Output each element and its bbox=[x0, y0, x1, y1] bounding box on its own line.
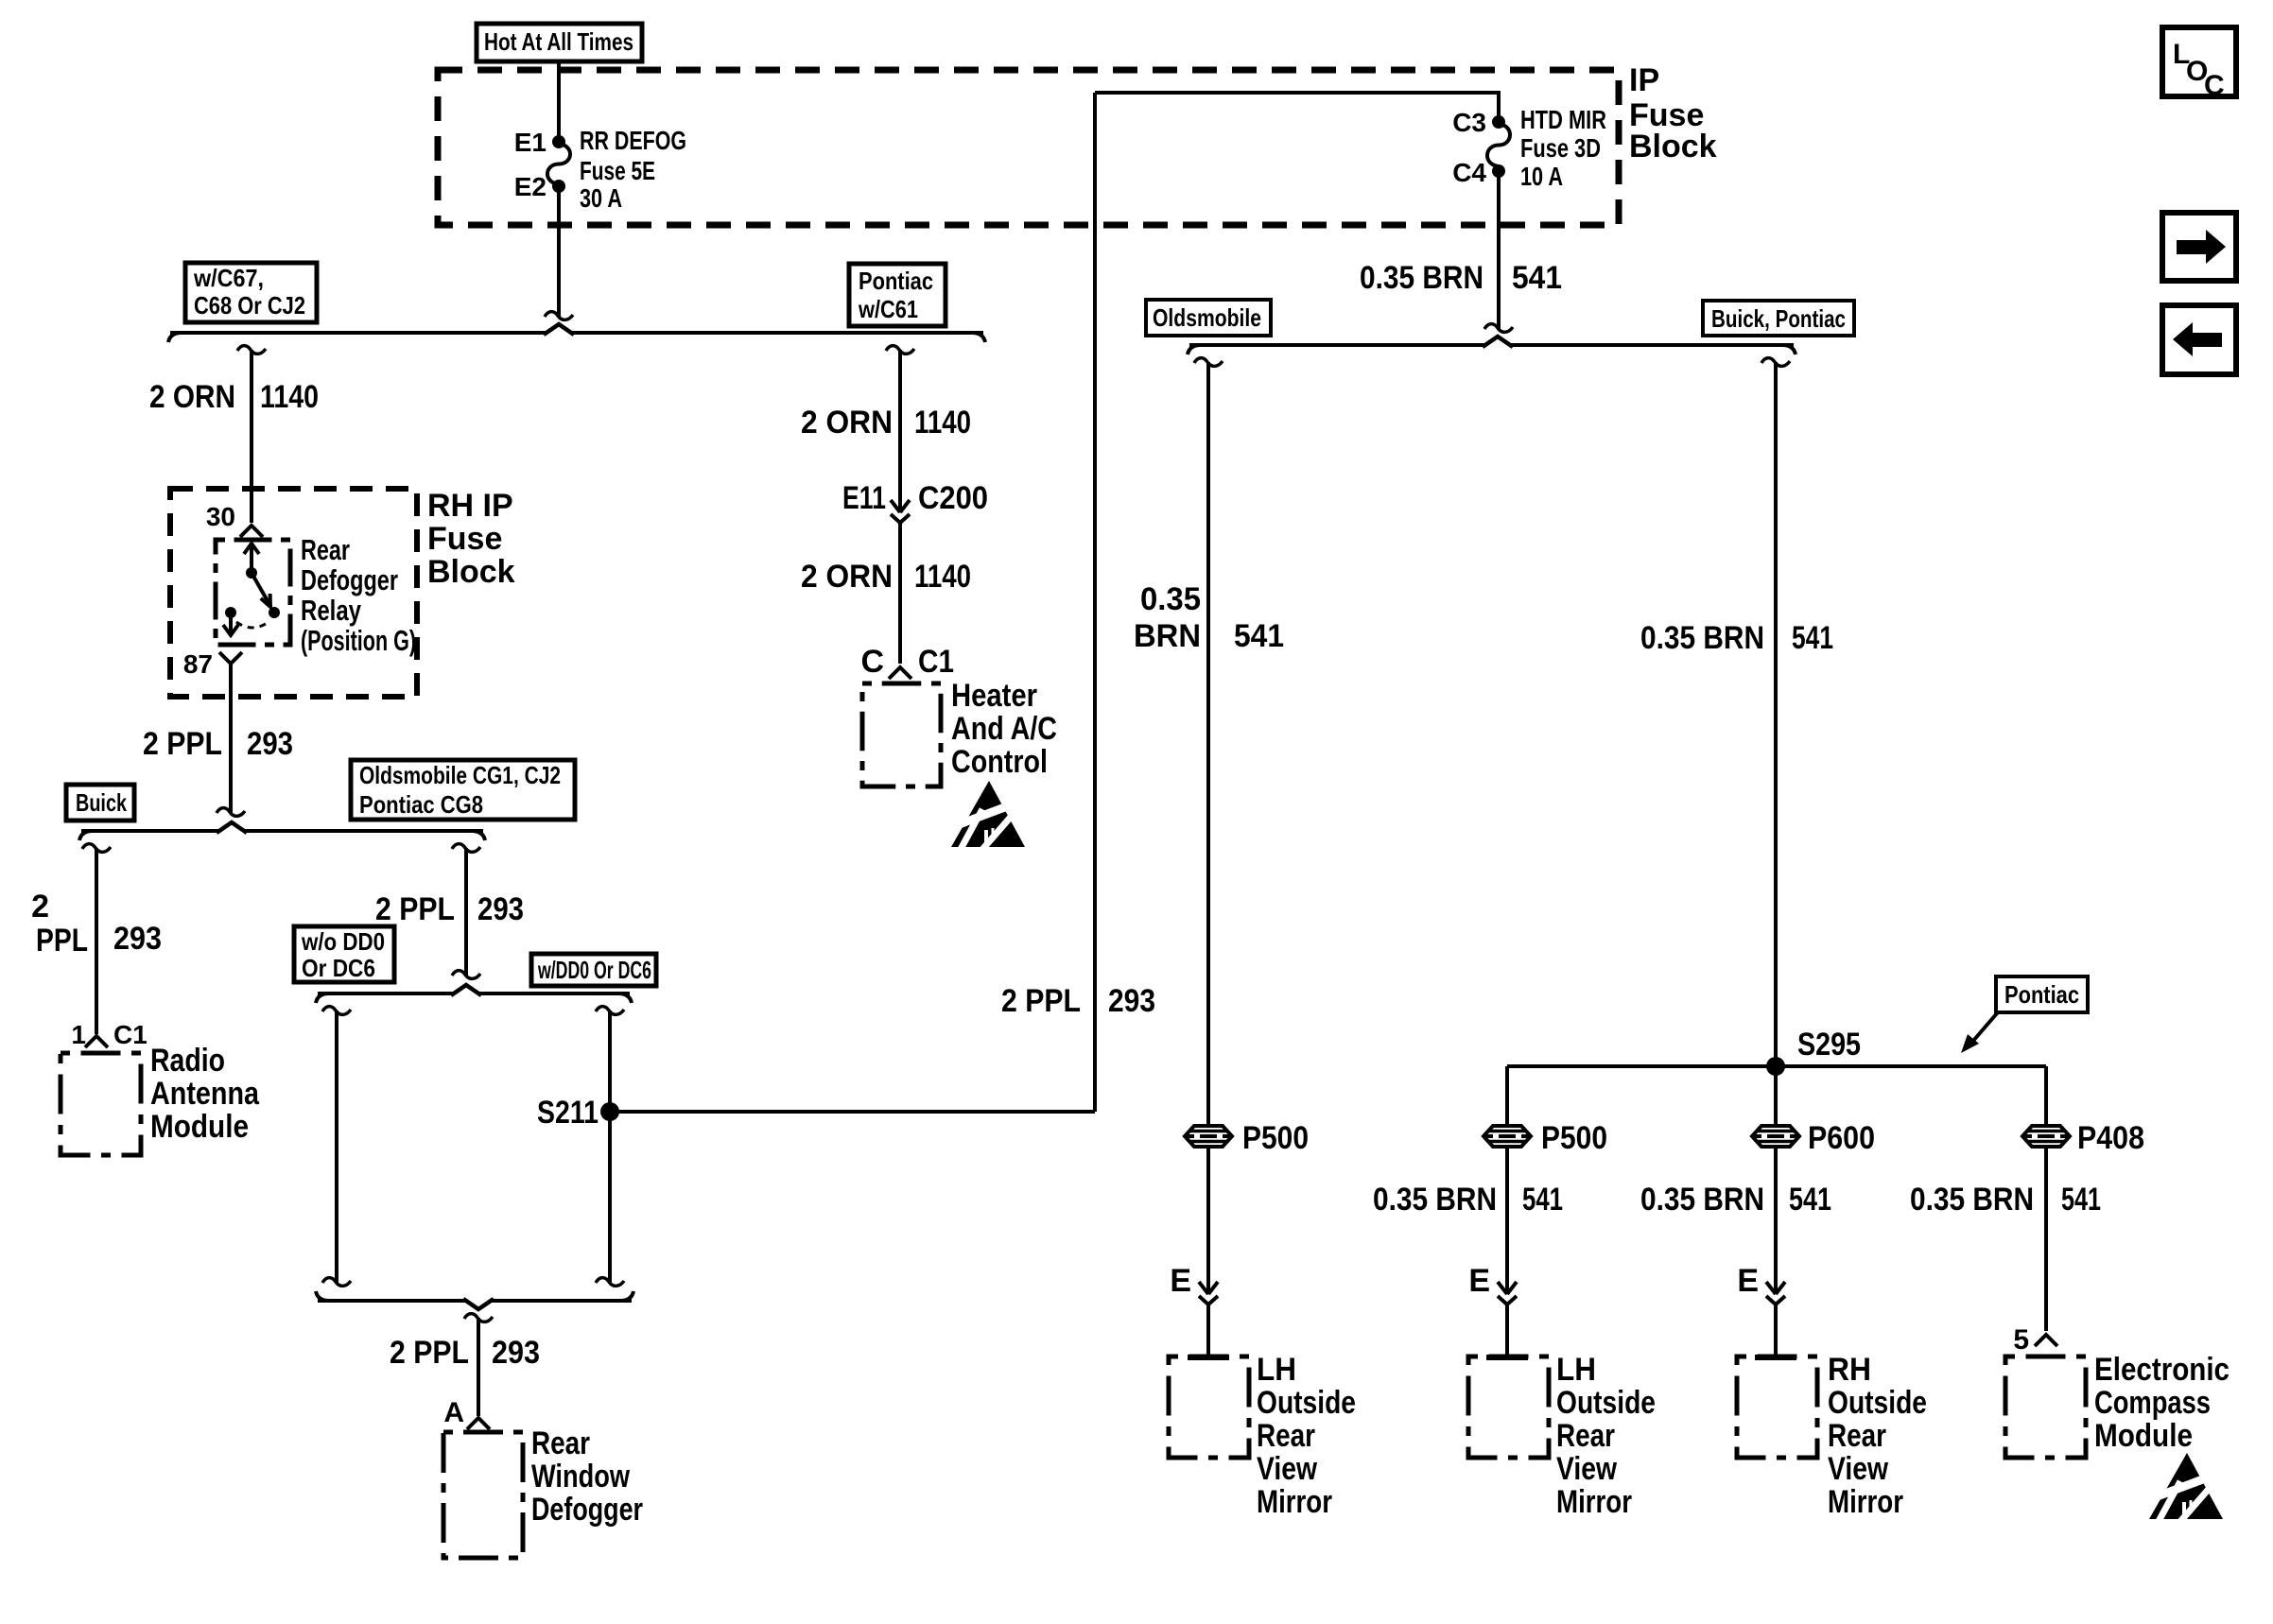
svg-text:w/DD0 Or DC6: w/DD0 Or DC6 bbox=[537, 956, 651, 984]
label box: Pontiac w/C61 bbox=[849, 264, 946, 326]
bus 2 splice brace (HTD MIR fuse output) bbox=[1188, 337, 1796, 354]
svg-text:1140: 1140 bbox=[914, 405, 971, 441]
Heater And A/C Control dashed outline bbox=[862, 683, 941, 786]
svg-text:Heater: Heater bbox=[951, 678, 1037, 714]
connector chevron at compass module bbox=[2035, 1335, 2057, 1346]
svg-text:Pontiac CG8: Pontiac CG8 bbox=[359, 790, 483, 819]
svg-text:Outside: Outside bbox=[1257, 1385, 1356, 1421]
svg-text:541: 541 bbox=[1234, 618, 1284, 654]
Radio Antenna Module dashed outline bbox=[61, 1053, 141, 1155]
svg-text:Rear: Rear bbox=[301, 533, 350, 566]
component name: Rear Window Defogger bbox=[531, 1425, 643, 1528]
svg-text:P408: P408 bbox=[2077, 1120, 2144, 1156]
svg-text:LH: LH bbox=[1556, 1352, 1596, 1388]
svg-text:E1: E1 bbox=[514, 128, 547, 157]
component name: RH IP Fuse Block bbox=[427, 488, 515, 590]
bus 5 collector brace (to rear window defogger) bbox=[316, 1291, 633, 1309]
wire from P500 to LH mirror (Buick/Pontiac) bbox=[1486, 1147, 1528, 1357]
svg-text:w/C67,: w/C67, bbox=[193, 264, 264, 292]
svg-text:293: 293 bbox=[492, 1335, 540, 1371]
svg-text:S211: S211 bbox=[537, 1095, 599, 1131]
wire from P500 to LH mirror (Oldsmobile) bbox=[1188, 1147, 1229, 1357]
svg-text:Fuse 5E: Fuse 5E bbox=[580, 156, 655, 185]
svg-text:C1: C1 bbox=[113, 1020, 147, 1049]
fuse RR DEFOG Fuse 5E 30A (terminals E1/E2) bbox=[547, 135, 570, 193]
svg-text:1140: 1140 bbox=[914, 559, 971, 595]
wire from relay pin 87 to bus 3 bbox=[217, 664, 245, 816]
svg-text:293: 293 bbox=[1108, 983, 1155, 1019]
svg-text:Defogger: Defogger bbox=[531, 1492, 643, 1528]
svg-text:541: 541 bbox=[1789, 1182, 1831, 1218]
svg-text:Buick: Buick bbox=[76, 788, 127, 817]
svg-text:PPL: PPL bbox=[36, 923, 88, 959]
label box: Buick, Pontiac bbox=[1703, 301, 1854, 336]
wire label 2 ORN 1140 (left) bbox=[149, 379, 319, 415]
relay moving contact dot bbox=[269, 607, 280, 618]
svg-text:0.35 BRN: 0.35 BRN bbox=[1910, 1182, 2034, 1218]
splice node S295 bbox=[1766, 1027, 1861, 1076]
ESD sensitivity symbol (heater control) bbox=[951, 781, 1025, 847]
svg-text:P500: P500 bbox=[1242, 1120, 1309, 1156]
svg-text:Rear: Rear bbox=[531, 1425, 590, 1461]
svg-text:C3: C3 bbox=[1452, 108, 1486, 137]
svg-text:Pontiac: Pontiac bbox=[859, 267, 933, 295]
svg-text:0.35 BRN: 0.35 BRN bbox=[1373, 1182, 1497, 1218]
svg-text:1140: 1140 bbox=[260, 379, 319, 415]
RH Outside Rear View Mirror dashed outline bbox=[1737, 1356, 1817, 1458]
wire label 2 ORN 1140 (lower middle) bbox=[801, 559, 971, 595]
wire from C4 down to bus 2 bbox=[1484, 176, 1513, 332]
svg-text:Block: Block bbox=[427, 554, 515, 590]
svg-text:C4: C4 bbox=[1452, 158, 1486, 187]
svg-text:Window: Window bbox=[531, 1459, 630, 1494]
svg-text:P500: P500 bbox=[1541, 1120, 1607, 1156]
wire label 0.35 BRN 541 (P408 branch) bbox=[1910, 1182, 2101, 1218]
relay switch blade and contacts bbox=[244, 544, 270, 607]
svg-text:293: 293 bbox=[477, 891, 524, 927]
label box: Oldsmobile CG1, CJ2 / Pontiac CG8 bbox=[351, 760, 575, 820]
wire from bus 1 to relay pin 30 bbox=[237, 346, 266, 523]
wire from P600 to RH mirror bbox=[1755, 1147, 1796, 1357]
svg-text:30 A: 30 A bbox=[580, 183, 622, 213]
svg-text:RR DEFOG: RR DEFOG bbox=[580, 126, 686, 155]
LH Outside Rear View Mirror dashed outline (Buick/Pontiac) bbox=[1468, 1356, 1549, 1458]
svg-text:2 PPL: 2 PPL bbox=[375, 891, 455, 927]
wire label 2 PPL 293 (relay output) bbox=[143, 726, 293, 762]
svg-text:View: View bbox=[1828, 1451, 1888, 1487]
page-continue arrow left box bbox=[2162, 305, 2236, 374]
wire from Hot At All Times to fuse E1 bbox=[557, 61, 561, 136]
svg-text:2 ORN: 2 ORN bbox=[801, 559, 893, 595]
svg-text:Mirror: Mirror bbox=[1556, 1484, 1632, 1520]
svg-text:2 PPL: 2 PPL bbox=[1001, 983, 1081, 1019]
wire: S295 distribution bus bbox=[1507, 1064, 2046, 1068]
svg-text:Oldsmobile CG1, CJ2: Oldsmobile CG1, CJ2 bbox=[359, 761, 561, 789]
wire from E2 down to bus 1 bbox=[545, 191, 573, 320]
grommet P500 (Oldsmobile) bbox=[1185, 1120, 1309, 1156]
svg-text:5: 5 bbox=[2013, 1324, 2029, 1356]
wire label 2 ORN 1140 (upper middle) bbox=[801, 405, 971, 441]
wire label 2 PPL 293 (Oldsmobile branch) bbox=[375, 891, 524, 927]
wire label 0.35 BRN 541 (P500 branch) bbox=[1373, 1182, 1563, 1218]
svg-text:LH: LH bbox=[1257, 1352, 1296, 1388]
component name: IP Fuse Block bbox=[1629, 62, 1717, 164]
svg-text:Radio: Radio bbox=[150, 1043, 225, 1079]
wire: P500 branch (Buick/Pontiac LH mirror) bbox=[1505, 1066, 1509, 1126]
svg-text:A: A bbox=[443, 1397, 464, 1428]
svg-text:S295: S295 bbox=[1797, 1027, 1861, 1063]
connector chevron at rear window defogger bbox=[467, 1418, 490, 1429]
svg-text:293: 293 bbox=[113, 921, 162, 957]
connector V at relay pin 87 bbox=[219, 652, 242, 664]
pin label C / C1 at heater control bbox=[860, 644, 954, 680]
wire: Buick/Pontiac branch down to S295 bbox=[1761, 358, 1790, 1066]
wire label 2 PPL 293 (stacked, Buick branch) bbox=[31, 889, 162, 959]
svg-text:Hot At All Times: Hot At All Times bbox=[484, 27, 633, 56]
component name: LH Outside Rear View Mirror (Oldsmobile) bbox=[1257, 1352, 1356, 1520]
label box: w/DD0 Or DC6 bbox=[531, 954, 656, 986]
relay fixed contact and coil-side arrow bbox=[223, 607, 238, 635]
page-continue arrow right box bbox=[2162, 213, 2236, 281]
label box: Oldsmobile bbox=[1146, 300, 1271, 336]
wire from C200 to heater control bbox=[898, 523, 902, 664]
wire: IP fuse block internal feed to C3 bbox=[1095, 91, 1499, 117]
svg-text:Fuse: Fuse bbox=[427, 521, 502, 557]
Rear Window Defogger dashed outline bbox=[443, 1432, 523, 1558]
svg-text:Compass: Compass bbox=[2094, 1385, 2211, 1421]
fuse value: HTD MIR Fuse 3D 10 A bbox=[1520, 105, 1606, 191]
LOC reference box bbox=[2162, 27, 2236, 101]
svg-text:30: 30 bbox=[206, 502, 235, 531]
svg-text:Relay: Relay bbox=[301, 594, 362, 627]
svg-text:541: 541 bbox=[1522, 1182, 1563, 1218]
svg-text:0.35 BRN: 0.35 BRN bbox=[1640, 620, 1764, 656]
svg-text:0.35: 0.35 bbox=[1140, 581, 1201, 617]
svg-text:541: 541 bbox=[1512, 260, 1562, 296]
wire label 2 PPL 293 (defogger feed) bbox=[390, 1335, 540, 1371]
svg-text:Outside: Outside bbox=[1828, 1385, 1927, 1421]
wire label 0.35 BRN 541 (Buick/Pontiac riser) bbox=[1640, 620, 1833, 656]
label box: Buick bbox=[66, 785, 134, 821]
wire: P408 branch (Electronic Compass) bbox=[2044, 1066, 2048, 1126]
svg-text:View: View bbox=[1556, 1451, 1617, 1487]
component name: Electronic Compass Module bbox=[2094, 1352, 2230, 1454]
grommet P600 bbox=[1752, 1120, 1875, 1156]
svg-text:Mirror: Mirror bbox=[1257, 1484, 1332, 1520]
svg-text:2 ORN: 2 ORN bbox=[801, 405, 893, 441]
wire from bus 1 to C200 connector (Pontiac) bbox=[886, 346, 914, 512]
connector chevron at relay pin 30 bbox=[240, 526, 263, 537]
relay name text: Rear Defogger Relay (Position G) bbox=[301, 533, 416, 657]
connector chevron at heater control bbox=[889, 667, 911, 679]
svg-text:87: 87 bbox=[183, 649, 213, 679]
svg-text:Pontiac: Pontiac bbox=[2004, 980, 2079, 1009]
wire from S211 junction to long vertical wire bbox=[610, 1110, 1095, 1114]
svg-text:(Position G): (Position G) bbox=[301, 624, 416, 657]
svg-text:2 PPL: 2 PPL bbox=[390, 1335, 469, 1371]
svg-text:E: E bbox=[1170, 1263, 1191, 1299]
wire label 2 PPL 293 (on long vertical wire) bbox=[1001, 983, 1155, 1019]
svg-text:Antenna: Antenna bbox=[150, 1076, 260, 1112]
label box: w/o DD0 Or DC6 bbox=[294, 926, 394, 982]
svg-text:10 A: 10 A bbox=[1520, 162, 1563, 191]
svg-text:C1: C1 bbox=[918, 644, 954, 680]
svg-text:293: 293 bbox=[247, 726, 293, 762]
svg-text:Or DC6: Or DC6 bbox=[302, 954, 375, 982]
svg-text:E: E bbox=[1737, 1263, 1759, 1299]
svg-text:w/C61: w/C61 bbox=[858, 295, 918, 323]
wire: left drop of bus 4 down to bus 5 bbox=[322, 1007, 351, 1287]
IP Fuse Block dashed outline bbox=[438, 70, 1619, 225]
RH IP Fuse Block dashed outline bbox=[170, 489, 417, 697]
label box: Hot At All Times bbox=[477, 24, 642, 61]
svg-text:E2: E2 bbox=[514, 172, 547, 201]
svg-text:RH IP: RH IP bbox=[427, 488, 513, 524]
connector chevron at radio antenna module bbox=[85, 1036, 108, 1047]
svg-text:C: C bbox=[2204, 70, 2225, 101]
svg-text:2: 2 bbox=[31, 889, 49, 924]
svg-text:C200: C200 bbox=[918, 480, 988, 516]
wire from bus 3 to bus 4 bbox=[452, 844, 480, 979]
svg-text:Control: Control bbox=[951, 744, 1048, 780]
svg-text:View: View bbox=[1257, 1451, 1317, 1487]
splice node S211 bbox=[537, 1095, 619, 1131]
long vertical wire from IP fuse block down to S211 branch bbox=[1093, 93, 1097, 1112]
wire from bus 3 to radio antenna module bbox=[82, 844, 111, 1034]
svg-text:1: 1 bbox=[71, 1020, 86, 1049]
grommet P500 (Buick/Pontiac) bbox=[1484, 1120, 1607, 1156]
svg-text:541: 541 bbox=[1792, 620, 1833, 656]
relay Rear Defogger Relay (Position G) dashed outline bbox=[216, 540, 290, 645]
LH Outside Rear View Mirror dashed outline (Oldsmobile) bbox=[1169, 1356, 1249, 1458]
svg-text:Defogger: Defogger bbox=[301, 563, 398, 596]
svg-text:0.35 BRN: 0.35 BRN bbox=[1640, 1182, 1764, 1218]
wire label 0.35 BRN 541 (stacked, Oldsmobile) bbox=[1134, 581, 1284, 654]
svg-text:And A/C: And A/C bbox=[951, 711, 1057, 747]
wire: P600 branch continues from S295 bbox=[1774, 1066, 1778, 1126]
fuse value: RR DEFOG Fuse 5E 30 A bbox=[580, 126, 686, 213]
svg-text:Oldsmobile: Oldsmobile bbox=[1153, 303, 1261, 332]
svg-text:RH: RH bbox=[1828, 1352, 1871, 1388]
fuse HTD MIR Fuse 3D 10A (terminals C3/C4) bbox=[1487, 115, 1510, 178]
wire: Oldsmobile branch down to P500 bbox=[1194, 358, 1223, 1126]
grommet P408 bbox=[2022, 1120, 2144, 1156]
component name: RH Outside Rear View Mirror bbox=[1828, 1352, 1927, 1520]
svg-text:C68 Or CJ2: C68 Or CJ2 bbox=[194, 291, 305, 320]
svg-text:E11: E11 bbox=[842, 480, 886, 516]
svg-text:Rear: Rear bbox=[1828, 1418, 1886, 1454]
bus 3 splice brace bbox=[79, 822, 485, 840]
svg-text:P600: P600 bbox=[1808, 1120, 1875, 1156]
svg-text:Module: Module bbox=[2094, 1418, 2193, 1454]
wire label 0.35 BRN 541 (P600 branch) bbox=[1640, 1182, 1831, 1218]
svg-text:IP: IP bbox=[1629, 62, 1659, 98]
svg-text:C: C bbox=[860, 644, 884, 680]
svg-text:BRN: BRN bbox=[1134, 618, 1201, 654]
svg-text:2 ORN: 2 ORN bbox=[149, 379, 235, 415]
component name: LH Outside Rear View Mirror (Buick/Pontiac) bbox=[1556, 1352, 1656, 1520]
svg-text:Rear: Rear bbox=[1556, 1418, 1615, 1454]
svg-text:0.35 BRN: 0.35 BRN bbox=[1360, 260, 1484, 296]
bus 1 splice brace (fuse E2 output) bbox=[168, 324, 985, 342]
in-line connector E11 C200 bbox=[842, 480, 988, 523]
wire from bus 5 to rear window defogger bbox=[464, 1314, 493, 1416]
bus 4 splice brace bbox=[316, 985, 632, 1003]
svg-text:Buick, Pontiac: Buick, Pontiac bbox=[1711, 304, 1846, 333]
svg-text:Module: Module bbox=[150, 1109, 249, 1145]
component name: Radio Antenna Module bbox=[150, 1043, 260, 1145]
relay dashed travel arc bbox=[236, 622, 269, 628]
svg-text:w/o DD0: w/o DD0 bbox=[301, 927, 385, 956]
component name: Heater And A/C Control bbox=[951, 678, 1057, 780]
wire from P408 to compass module bbox=[2044, 1147, 2048, 1331]
svg-text:Block: Block bbox=[1629, 129, 1717, 164]
pin label 1 / C1 at radio antenna module bbox=[71, 1020, 147, 1049]
svg-text:Mirror: Mirror bbox=[1828, 1484, 1903, 1520]
svg-text:HTD MIR: HTD MIR bbox=[1520, 105, 1606, 134]
label box: Pontiac with leader arrow bbox=[1961, 976, 2088, 1053]
ESD sensitivity symbol (compass module) bbox=[2149, 1453, 2223, 1519]
svg-text:Electronic: Electronic bbox=[2094, 1352, 2230, 1388]
svg-text:E: E bbox=[1468, 1263, 1490, 1299]
wire label 0.35 BRN 541 (below C4) bbox=[1360, 260, 1562, 296]
svg-text:Fuse 3D: Fuse 3D bbox=[1520, 133, 1601, 163]
Electronic Compass Module dashed outline bbox=[2005, 1356, 2086, 1458]
svg-text:2 PPL: 2 PPL bbox=[143, 726, 222, 762]
label box: w/C67, C68 Or CJ2 bbox=[185, 263, 317, 322]
svg-text:Rear: Rear bbox=[1257, 1418, 1315, 1454]
wire: right drop of bus 4 through S211 to bus 5 bbox=[596, 1007, 624, 1287]
svg-text:541: 541 bbox=[2061, 1182, 2101, 1218]
svg-text:Outside: Outside bbox=[1556, 1385, 1656, 1421]
